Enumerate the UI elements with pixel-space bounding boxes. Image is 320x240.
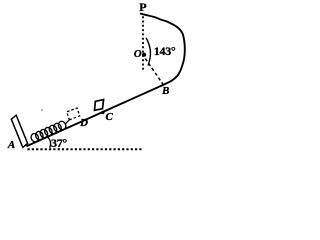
angle arc 37 bbox=[47, 137, 50, 148]
label D bbox=[80, 118, 88, 129]
label C bbox=[106, 112, 113, 123]
label B bbox=[162, 86, 169, 97]
label 143 bbox=[154, 45, 176, 57]
label P bbox=[139, 1, 146, 13]
block D dashed square bbox=[67, 108, 80, 120]
spring-to-block connector bbox=[65, 120, 69, 124]
faint scan speck bbox=[41, 109, 43, 111]
label A bbox=[8, 140, 15, 151]
block C square bbox=[95, 100, 104, 111]
wall at A bbox=[11, 115, 27, 147]
label 37 bbox=[51, 137, 67, 149]
contact dot at C bbox=[101, 111, 104, 114]
dashed radius O-B bbox=[145, 59, 163, 85]
small angle arc 143 bbox=[146, 38, 150, 66]
incline line + loop track curve bbox=[26, 14, 184, 147]
vertical dotted line P-O bbox=[142, 16, 144, 71]
label O bbox=[134, 49, 142, 60]
spring coils bbox=[30, 120, 67, 143]
center dot O bbox=[142, 53, 146, 57]
baseline dotted horizontal bbox=[28, 148, 143, 150]
